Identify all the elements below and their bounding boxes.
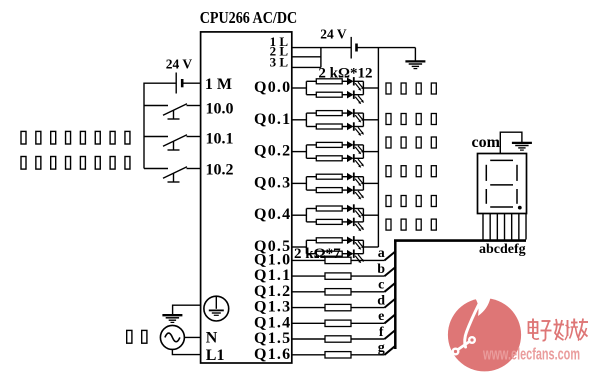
resistor R (Q0.3 lower) [306,188,347,193]
display pins a-g [483,214,526,240]
harness vertical [394,240,397,349]
left placeholder glyph row 2 [21,157,130,170]
svg-text:g: g [378,341,385,356]
battery B2 [351,37,356,59]
resistor R (Q1.0) with wire [292,257,385,263]
wire Q0.2 pair to bus [363,145,378,158]
right placeholder glyph row 6 [386,219,436,230]
wire V1 to N [184,336,200,338]
wire Q0.1 pair to bus [363,113,378,126]
resistor R (Q0.4 upper) [306,206,347,211]
wire b into harness [385,267,397,277]
wire Q0.0 pair to bus [363,81,378,94]
switch S3 (I0.2) [144,167,201,182]
resistor R (Q0.0 lower) [306,92,347,97]
resistor R (Q1.5) with wire [292,336,385,342]
wire 3L [292,66,321,68]
svg-text:Q0.1: Q0.1 [254,111,291,128]
svg-text:Q1.4: Q1.4 [254,314,291,331]
wire Q0.4 stub and split [292,209,307,222]
resistor R (Q0.4 lower) [306,219,347,224]
wire Q0.5 stub and split [292,240,307,253]
svg-text:10.1: 10.1 [206,131,234,148]
svg-text:Q0.3: Q0.3 [254,174,291,191]
ground G3 [162,315,182,322]
svg-text:24 V: 24 V [320,27,347,42]
LED D (Q0.0 upper) [347,77,364,91]
7-segment display DS1 [478,154,527,214]
resistor R (Q0.2 upper) [306,142,347,147]
wire Q0.4 pair to bus [363,209,378,222]
LED D (Q0.1 upper) [347,109,364,123]
watermark title glyphs [529,319,589,341]
wire Q0.3 stub and split [292,177,307,190]
resistor R (Q1.6) with wire [292,352,385,358]
svg-text:24 V: 24 V [166,56,193,71]
LED D (Q0.2 upper) [347,141,364,155]
resistor R (Q1.1) with wire [292,273,385,279]
svg-text:Q1.3: Q1.3 [254,299,291,316]
svg-text:2 kΩ*7: 2 kΩ*7 [294,246,341,262]
resistor R (Q0.2 lower) [306,156,347,161]
resistor R (Q1.4) with wire [292,320,385,326]
svg-text:N: N [206,330,218,347]
LED D (Q0.3 lower) [347,186,364,200]
svg-text:Q1.1: Q1.1 [254,267,291,284]
ground G1 [405,48,425,69]
wire c into harness [385,282,397,292]
svg-text:Q0.0: Q0.0 [254,79,291,96]
svg-text:1 M: 1 M [205,76,232,93]
svg-text:Q1.5: Q1.5 [254,330,291,347]
switch S1 (I0.0) [144,104,201,119]
wire com to ground [500,132,522,153]
wire V1 to L1 [172,349,200,354]
svg-text:a: a [378,246,385,261]
wire B1 to input bus [144,82,176,84]
AC source V1 [160,325,184,349]
wire g into harness [385,345,397,355]
wire a into harness [385,251,397,261]
LED D (Q0.3 upper) [347,173,364,187]
LED D (Q0.0 lower) [347,91,364,105]
LED D (Q0.4 lower) [347,218,364,232]
resistor R (Q0.0 upper) [306,79,347,84]
LED D (Q0.1 lower) [347,122,364,136]
segment figure 8 [486,160,517,207]
svg-text:d: d [377,293,385,308]
resistor R (Q0.5 upper) [306,238,347,243]
svg-text:10.0: 10.0 [206,100,234,117]
left placeholder glyph row 1 [21,131,130,144]
ground G2 [512,143,532,150]
LED D (Q0.5 upper) [347,236,364,250]
svg-text:www.elecfans.com: www.elecfans.com [482,345,580,364]
right placeholder glyph row 2 [386,114,436,125]
svg-text:3 L: 3 L [270,55,289,70]
wire Q0.1 stub and split [292,113,307,126]
svg-text:e: e [378,309,384,324]
svg-text:Q0.2: Q0.2 [254,143,291,160]
right placeholder glyph row 1 [386,83,436,94]
right placeholder glyph row 3 [386,137,436,148]
svg-text:CPU266 AC/DC: CPU266 AC/DC [200,8,298,27]
svg-text:Q1.2: Q1.2 [254,283,291,300]
resistor R (Q0.1 upper) [306,111,347,116]
tie vertical L terminals [320,48,322,68]
harness horizontal to display [394,239,526,242]
wire Q0.2 stub and split [292,145,307,158]
LED supply bus [377,48,379,247]
resistor R (Q1.2) with wire [292,289,385,295]
LED D (Q0.5 lower) [347,250,364,264]
wire Q0.5 pair to bus [363,240,378,253]
resistor R (Q0.1 lower) [306,124,347,129]
right placeholder glyph row 5 [386,196,436,207]
svg-text:b: b [377,262,385,277]
switch S2 (I0.1) [144,135,201,150]
watermark logo [448,295,521,371]
wire PE to ground [173,305,201,315]
resistor R (Q0.5 lower) [306,251,347,256]
resistor R (Q1.3) with wire [292,304,385,310]
input bus vertical [143,83,145,169]
resistor R (Q0.3 upper) [306,174,347,179]
LED D (Q0.4 upper) [347,204,364,218]
svg-text:L1: L1 [206,347,225,364]
wire 1L [292,47,351,49]
svg-text:c: c [378,278,384,293]
PLC box U1 [201,32,292,363]
svg-text:f: f [379,325,384,340]
wire B2 to ground [357,47,416,49]
wire e into harness [385,314,397,324]
svg-text:abcdefg: abcdefg [479,242,526,257]
wire 2L [292,56,321,58]
svg-text:Q1.0: Q1.0 [254,251,291,268]
svg-text:Q0.4: Q0.4 [254,206,291,223]
wire Q0.0 stub and split [292,81,307,94]
LED D (Q0.2 lower) [347,154,364,168]
svg-text:com: com [472,134,501,151]
right placeholder glyph row 4 [386,166,436,177]
svg-text:10.2: 10.2 [206,162,234,179]
placeholder glyphs at AC source [127,330,147,343]
wire d into harness [385,298,397,308]
decimal point [518,206,522,210]
wire Q0.3 pair to bus [363,177,378,190]
wire f into harness [385,330,397,340]
svg-text:Q1.6: Q1.6 [254,346,291,363]
battery B1 [176,73,182,94]
wire B1 to 1M [182,82,200,84]
protective earth symbol PE [204,296,229,321]
